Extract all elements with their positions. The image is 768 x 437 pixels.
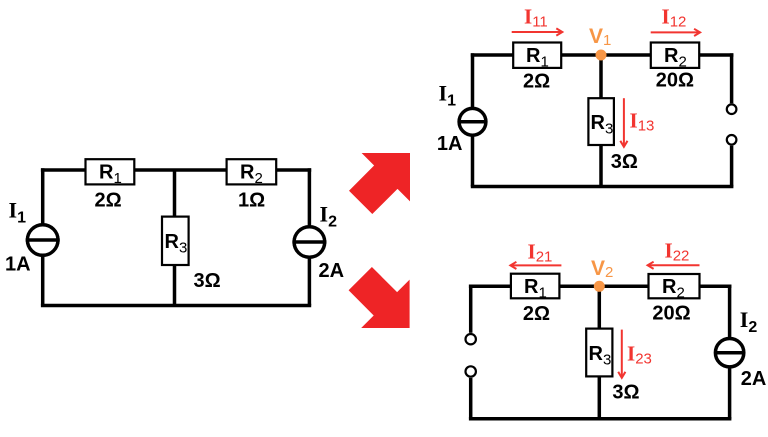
open terminal lower (bottom-right circuit) — [466, 366, 476, 376]
wire right vertical (bottom-right circuit) — [728, 285, 732, 419]
svg-text:2A: 2A — [741, 368, 767, 390]
node V1 dot — [596, 50, 607, 61]
current arrow I21 (points left) — [510, 262, 561, 269]
wire bottom (bottom-right circuit) — [469, 417, 732, 421]
current source I2 (bottom-right circuit) — [715, 339, 743, 367]
wire right vertical upper (top-right circuit) — [730, 53, 734, 103]
current arrow I13 — [620, 98, 627, 147]
current arrow I22 (points left) — [648, 262, 700, 269]
resistor R1 (bottom-right circuit) — [511, 274, 560, 302]
svg-text:20Ω: 20Ω — [652, 303, 690, 325]
current source I1 (top-right circuit) — [459, 108, 486, 135]
svg-text:2Ω: 2Ω — [523, 303, 550, 325]
svg-text:3Ω: 3Ω — [611, 151, 638, 173]
svg-text:1A: 1A — [437, 133, 463, 155]
svg-text:2Ω: 2Ω — [523, 70, 550, 92]
wire bottom (top-right circuit) — [471, 185, 734, 189]
wire left vertical left circuit — [41, 168, 45, 305]
open terminal lower (top-right circuit) — [727, 135, 737, 145]
wire top (top-right circuit) — [471, 53, 734, 57]
current arrow I11 — [512, 28, 563, 35]
current source I2 (left circuit) — [292, 227, 326, 258]
wire right vertical lower (top-right circuit) — [730, 146, 734, 187]
svg-text:1Ω: 1Ω — [238, 190, 265, 212]
svg-text:1A: 1A — [5, 253, 31, 275]
resistor R1 (left circuit) — [86, 159, 135, 187]
wire bottom left circuit — [41, 304, 311, 308]
current arrow I23 (points down) — [618, 330, 625, 378]
wire left vertical upper (bottom-right circuit) — [469, 285, 473, 333]
svg-text:2Ω: 2Ω — [95, 190, 122, 212]
node V2 dot — [594, 281, 605, 292]
big red arrow up-right — [349, 153, 410, 214]
current arrow I12 — [651, 29, 700, 36]
wire node vertical (top-right circuit) — [599, 55, 603, 187]
wire top (bottom-right circuit) — [469, 285, 732, 289]
wire left vertical (top-right circuit) — [471, 53, 475, 186]
svg-text:3Ω: 3Ω — [194, 270, 221, 292]
resistor R2 (left circuit) — [227, 159, 277, 187]
wire top left circuit — [41, 168, 311, 172]
current source I1 (left circuit) — [26, 225, 60, 256]
open terminal upper (bottom-right circuit) — [466, 334, 476, 344]
big red arrow down-right — [349, 267, 410, 328]
wire node vertical (bottom-right circuit) — [598, 286, 602, 419]
resistor R3 (left circuit) — [162, 217, 189, 265]
svg-text:3Ω: 3Ω — [612, 382, 639, 404]
open terminal upper (top-right circuit) — [727, 104, 737, 114]
wire right vertical left circuit — [308, 168, 312, 305]
resistor R3 (top-right circuit) — [588, 98, 614, 145]
wire middle vertical left circuit — [173, 170, 177, 306]
resistor R2 (bottom-right circuit) — [649, 274, 700, 302]
svg-text:2A: 2A — [319, 260, 345, 282]
resistor R1 (top-right circuit) — [513, 43, 561, 71]
svg-text:20Ω: 20Ω — [656, 70, 694, 92]
resistor R3 (bottom-right circuit) — [586, 329, 612, 377]
resistor R2 (top-right circuit) — [651, 43, 699, 71]
wire left vertical lower (bottom-right circuit) — [469, 378, 473, 419]
